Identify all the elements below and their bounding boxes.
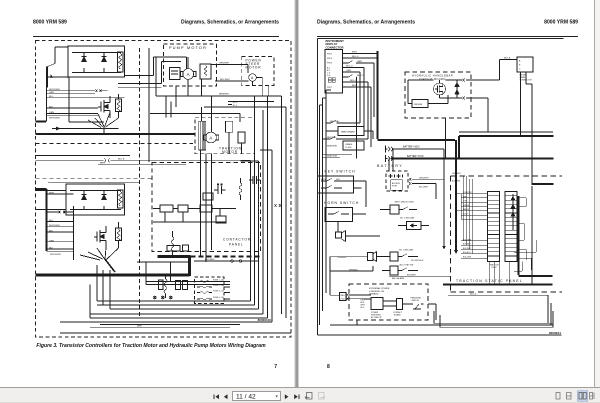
relay K2 (382, 252, 418, 261)
transistor Q2 (94, 226, 106, 248)
wire labels J1 (346, 52, 364, 87)
svg-text:BLU: BLU (49, 220, 54, 222)
transformer T1 (176, 281, 188, 290)
svg-text:7: 7 (274, 364, 277, 370)
diode D1 (82, 57, 87, 62)
trunk2 labels (49, 192, 61, 255)
svg-text:BLU-O: BLU-O (346, 66, 353, 68)
svg-text:SEAT-BRN: SEAT-BRN (327, 145, 337, 148)
mid vertical wires (156, 57, 240, 132)
next page button (285, 394, 289, 399)
wires out of connector J1 (343, 54, 378, 159)
right side long verticals (241, 96, 287, 322)
connector pair on branch (59, 211, 66, 214)
wire: box1 to pump feed elbow (125, 57, 187, 76)
transistor Q1 (98, 96, 110, 118)
instrument display connector J1 (325, 50, 343, 94)
fuse F1 (197, 281, 230, 283)
mosfet U1 on board (434, 83, 446, 95)
svg-text:ORN: ORN (49, 112, 54, 114)
driver blocks in contactor panel (153, 205, 236, 251)
resistor R4 vertical (118, 190, 124, 208)
coil L1 (159, 274, 168, 298)
svg-text:BLK-B: BLK-B (504, 58, 511, 60)
instrument display connector label (326, 39, 345, 49)
svg-text:BLK: BLK (352, 85, 357, 87)
long lower wires (330, 257, 553, 328)
svg-text:STEERING ON: STEERING ON (369, 291, 384, 293)
svg-text:BLK-RED: BLK-RED (205, 259, 215, 261)
timer block (203, 193, 213, 200)
wires down from brush connector (521, 72, 533, 285)
svg-text:EXTERNAL POWER: EXTERNAL POWER (369, 287, 390, 290)
previous view icon (305, 393, 312, 400)
svg-text:8000 YRM 589: 8000 YRM 589 (544, 20, 578, 26)
hydraulic handlebar circuit board (405, 72, 471, 118)
sub frame wire 2 (73, 206, 75, 260)
wire y182.7 (48, 182, 140, 184)
svg-text:MOTOR: MOTOR (222, 150, 238, 154)
svg-text:11 / 42: 11 / 42 (236, 394, 256, 401)
pressure switch PS1 (411, 298, 422, 303)
heavy runs in panel (519, 196, 553, 276)
right page edge (594, 0, 595, 387)
thick stub border to trunk (36, 121, 47, 123)
svg-text:BLK-BLU: BLK-BLU (463, 252, 471, 254)
dashed wire y178.2 (36, 177, 153, 179)
svg-text:FUSE 3 - 5A: FUSE 3 - 5A (213, 290, 224, 293)
wire y164.2 (98, 163, 186, 165)
svg-text:BRAKE: BRAKE (346, 143, 353, 146)
heavy dashed continuation (191, 256, 261, 258)
next view icon (disabled) (319, 393, 325, 400)
svg-text:GRN: GRN (49, 92, 54, 94)
continuous facing layout icon (590, 393, 595, 400)
speed sensor block (226, 121, 233, 132)
svg-text:HORN SWITCH: HORN SWITCH (324, 201, 359, 205)
brake fluid box (343, 141, 364, 150)
svg-text:PORT: PORT (392, 186, 398, 188)
wire to brush connector (446, 60, 554, 159)
power steer motor box (242, 57, 274, 86)
contactor panel dashed box (152, 163, 261, 252)
svg-text:8000E01: 8000E01 (549, 331, 561, 335)
x-node circles (153, 296, 172, 299)
wires left of box2 (36, 191, 67, 210)
thick return y256.5 (158, 255, 191, 258)
svg-text:WHT: WHT (352, 52, 358, 54)
bus line y128.5 (52, 127, 119, 130)
heavy feeder H1 (459, 136, 554, 159)
brush block in traction (199, 121, 245, 262)
svg-text:BLK-Y: BLK-Y (357, 75, 364, 77)
wire: second feed elbow (118, 62, 181, 84)
contactor K4 contacts (214, 184, 226, 194)
thick diagonal into bus (105, 259, 116, 273)
svg-text:Diagrams, Schematics, or Arran: Diagrams, Schematics, or Arrangements (181, 20, 279, 26)
single page layout icon (556, 393, 560, 400)
snubber box 1 (68, 46, 125, 77)
header rule right (317, 36, 578, 37)
svg-text:PANEL: PANEL (229, 243, 244, 247)
svg-text:FUSE 4 - 5A: FUSE 4 - 5A (213, 296, 224, 299)
svg-text:FUSE 2 - 5A: FUSE 2 - 5A (213, 284, 224, 287)
node B+ B- stubs (228, 102, 232, 105)
speaker LS2 (368, 252, 391, 262)
fuse F3 (197, 292, 230, 294)
svg-text:BLK-GRN: BLK-GRN (463, 239, 472, 241)
figure outer dashed border (36, 41, 292, 338)
svg-text:GRN-WHT: GRN-WHT (452, 173, 462, 175)
svg-text:A: A (187, 72, 190, 77)
wire at y 87.7 (118, 87, 162, 89)
bottom wire bundle (60, 265, 291, 333)
heavy stub right H3 (532, 183, 554, 185)
svg-text:BATTERY: BATTERY (377, 164, 403, 168)
svg-text:WHT/GRN: WHT/GRN (49, 225, 60, 227)
traction motor box (195, 118, 254, 154)
svg-text:KEY SWITCH: KEY SWITCH (325, 170, 356, 174)
svg-text:BATTERY POS: BATTERY POS (407, 155, 424, 158)
relay K3 (382, 266, 418, 275)
first page button (214, 394, 220, 399)
page field (233, 392, 281, 401)
svg-text:GRN: GRN (357, 61, 362, 63)
svg-text:BATT: BATT (321, 178, 327, 181)
horn LS1 (336, 222, 381, 242)
svg-text:GRN-BLK: GRN-BLK (338, 257, 348, 259)
svg-text:BELL ALARM: BELL ALARM (392, 277, 404, 280)
mid horizontal wires pump to traction (150, 57, 286, 132)
svg-text:PUMP MOTOR: PUMP MOTOR (169, 46, 207, 50)
pump motor box (164, 44, 217, 86)
diode D2 (102, 57, 107, 62)
svg-text:MOTOR: MOTOR (246, 66, 262, 70)
external connector (340, 293, 372, 301)
svg-text:NO. 2 REC-BAT: NO. 2 REC-BAT (399, 249, 414, 252)
svg-text:NO WHT-BLK: NO WHT-BLK (411, 260, 424, 262)
battery positive bus (391, 157, 554, 159)
svg-text:CONTACTOR: CONTACTOR (223, 238, 251, 242)
left cable trunk 1 (46, 67, 48, 122)
svg-text:SELF SHUTDOWN: SELF SHUTDOWN (395, 202, 414, 204)
connector chevrons right of board (463, 79, 469, 100)
tiny pin grid (328, 78, 335, 83)
prev page button (224, 394, 228, 399)
main bus y134 (36, 133, 196, 135)
svg-text:BLK: BLK (49, 230, 54, 232)
terminal strip TB1 column 1 (488, 192, 500, 262)
snubber box 2 (66, 184, 125, 215)
battery cells (389, 149, 403, 190)
svg-text:ORN: ORN (49, 240, 54, 242)
svg-text:BRN: BRN (100, 162, 105, 164)
svg-text:WHT/GRN: WHT/GRN (49, 89, 60, 91)
resistor R3 vertical (118, 52, 124, 72)
svg-text:BLK-11: BLK-11 (470, 294, 477, 296)
svg-text:IGN: IGN (336, 179, 340, 181)
svg-text:WHT/GRN: WHT/GRN (50, 254, 61, 256)
temp sensor block traction (238, 132, 245, 143)
wire: border to snubber box 1 (46, 47, 68, 88)
strip right-side wires (490, 198, 537, 285)
svg-text:SEAT-GRN: SEAT-GRN (327, 155, 338, 158)
wire with terminals y261 (137, 260, 259, 285)
wire y160.4 with inline connector (36, 156, 251, 165)
svg-text:GRN/WHT: GRN/WHT (219, 63, 230, 65)
thick riser x189.5 (188, 257, 191, 277)
svg-text:BLU B: BLU B (118, 159, 125, 161)
fan-in node 2 (80, 248, 119, 260)
external power steering dashed box (349, 284, 428, 320)
figure frame right page (318, 39, 564, 336)
svg-text:BLK-O: BLK-O (350, 80, 357, 82)
svg-text:BATTERY NEG: BATTERY NEG (403, 146, 420, 149)
svg-text:ACTUATOR: ACTUATOR (371, 316, 382, 319)
sub frame wire (69, 77, 104, 122)
svg-text:BLK-Y: BLK-Y (463, 214, 469, 216)
svg-text:CONNECTOR: CONNECTOR (326, 45, 344, 49)
svg-text:A: A (209, 136, 212, 141)
svg-text:BLK/WHT: BLK/WHT (407, 275, 417, 277)
svg-text:BAT-16: BAT-16 (463, 208, 469, 211)
fuse F2 (197, 286, 230, 288)
battery negative wire (392, 149, 444, 246)
diode D3 (82, 195, 87, 200)
coil L3 (239, 178, 242, 200)
thick feed left lower: elbow (36, 189, 47, 251)
resistor R2 (116, 222, 122, 248)
trunk1 branch wires (46, 91, 125, 116)
bus arrow terminal (454, 250, 458, 254)
fuse F4 (197, 298, 230, 300)
svg-text:BLK-ORN: BLK-ORN (452, 181, 461, 183)
contactor K5 contacts (249, 176, 261, 184)
svg-text:GRN-WHT: GRN-WHT (419, 177, 429, 179)
motor M2 (power steer) (215, 74, 269, 96)
resistor R1 (116, 94, 122, 118)
svg-text:POS-PWR: POS-PWR (463, 192, 472, 194)
svg-text:BRN-W: BRN-W (463, 205, 469, 207)
connector on first branch (96, 89, 108, 92)
left feeder verticals (320, 90, 332, 325)
wire rails inside box 1 (72, 53, 121, 73)
motor M1 (pump) (181, 57, 196, 96)
svg-text:BLU: BLU (49, 96, 54, 98)
svg-text:NEUTRAL: NEUTRAL (327, 136, 337, 139)
diode D4 (102, 195, 107, 200)
svg-text:BLK: BLK (49, 247, 54, 249)
svg-text:BLK-WHT: BLK-WHT (220, 79, 231, 81)
svg-text:PARK BRAKE: PARK BRAKE (341, 131, 355, 134)
svg-text:WHT/BLK: WHT/BLK (349, 269, 359, 271)
wire labels strip (452, 173, 472, 259)
diode block DB1 (398, 222, 429, 230)
board internal wires (408, 60, 553, 159)
svg-text:BLK-WHT: BLK-WHT (463, 248, 472, 250)
svg-text:8: 8 (327, 364, 330, 370)
svg-text:8000 YRM 589: 8000 YRM 589 (33, 20, 67, 26)
svg-text:PIN 6: PIN 6 (327, 63, 333, 65)
battery terminal connectors (386, 146, 394, 163)
svg-text:Diagrams, Schematics, or Arran: Diagrams, Schematics, or Arrangements (317, 20, 415, 26)
svg-text:PIN 4: PIN 4 (327, 58, 333, 60)
fuse box dashed (195, 277, 225, 304)
svg-text:BRN: BRN (137, 326, 142, 328)
header rule (33, 36, 279, 37)
svg-text:PIN 7: PIN 7 (327, 87, 333, 89)
battery aux connectors (409, 178, 444, 199)
last page button (294, 394, 299, 399)
main thick bus y275 (36, 274, 190, 277)
trunk2 branch wires (47, 194, 74, 260)
contact board box (397, 299, 403, 310)
main bus from connector (378, 51, 457, 250)
connector plug box in pump (170, 68, 181, 80)
svg-text:ORN: ORN (346, 70, 351, 72)
park brake switch row (326, 120, 360, 123)
dashed bus y143.4 (36, 142, 194, 144)
traction static panel dashed box (451, 176, 563, 292)
wires below traction (201, 132, 242, 262)
svg-text:FLUID: FLUID (346, 147, 352, 149)
svg-text:Figure 3. Transistor Controlle: Figure 3. Transistor Controllers for Tra… (36, 343, 266, 349)
pdf viewer status bar (0, 387, 600, 403)
svg-text:BRN/WHT: BRN/WHT (219, 94, 230, 96)
svg-text:BLK: BLK (49, 106, 54, 108)
dashed vertical bus (139, 48, 141, 318)
svg-text:PIN 1: PIN 1 (327, 54, 333, 56)
fan-in node 1 (88, 113, 119, 135)
svg-text:FUSE 1 - 5A: FUSE 1 - 5A (213, 279, 224, 282)
terminal strip feed wires left (456, 176, 488, 258)
svg-text:TCM: TCM (463, 201, 467, 203)
trunk1 labels (49, 89, 60, 119)
park brake box (338, 127, 364, 136)
svg-text:BOARD: BOARD (394, 313, 401, 316)
svg-text:NEG: NEG (341, 295, 346, 297)
seat switch row (323, 131, 374, 139)
facing layout icon selected (578, 391, 588, 401)
svg-text:DRIVER: DRIVER (414, 104, 423, 106)
svg-text:WHT: WHT (49, 192, 55, 194)
brush wear connector J2 (517, 57, 533, 72)
svg-text:B+ 1: B+ 1 (233, 102, 238, 104)
connector pair right (275, 204, 282, 207)
svg-text:80000100: 80000100 (258, 318, 272, 322)
actuator box (371, 298, 383, 310)
svg-text:WHT/GRN: WHT/GRN (49, 117, 60, 119)
svg-text:NO. 1 REC-BAT: NO. 1 REC-BAT (400, 217, 415, 220)
diode stack DS1 (511, 194, 515, 230)
svg-text:BLU: BLU (361, 307, 365, 309)
svg-text:BLK-RED: BLK-RED (463, 244, 471, 246)
continuous layout icon (567, 393, 572, 400)
svg-text:SWITCH: SWITCH (412, 300, 420, 302)
svg-text:BLK-O: BLK-O (352, 56, 359, 58)
page separator (294, 0, 295, 387)
solid vertical bus x149 (148, 48, 150, 162)
motor M3 (traction) (203, 132, 218, 143)
svg-text:BLK-WHT: BLK-WHT (419, 187, 429, 189)
terminal strip TB2 column 2 (505, 192, 517, 262)
coil L2 (171, 231, 174, 256)
diode D5 pair (455, 80, 459, 98)
driver block on board (412, 100, 428, 108)
svg-text:BLK-ORN: BLK-ORN (463, 257, 472, 259)
wires out of temp block (202, 65, 249, 97)
svg-text:NEUTRAL: NEUTRAL (330, 120, 340, 123)
temp sensor block in pump (200, 64, 248, 96)
svg-text:ACC STBY SW: ACC STBY SW (400, 263, 414, 266)
